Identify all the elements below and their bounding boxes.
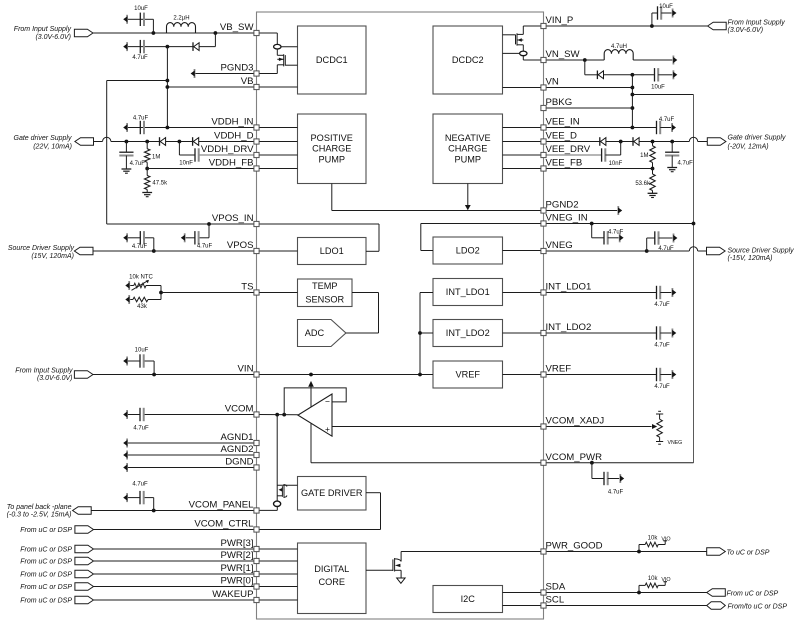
svg-text:4.7uF: 4.7uF <box>132 55 148 61</box>
svg-text:VREF: VREF <box>455 369 480 379</box>
svg-text:−: − <box>325 397 330 407</box>
svg-text:SDA: SDA <box>546 582 566 593</box>
svg-text:4.7uF: 4.7uF <box>659 117 675 123</box>
svg-text:DGND: DGND <box>225 457 253 468</box>
svg-text:(22V, 10mA): (22V, 10mA) <box>33 143 72 150</box>
svg-text:VNEG: VNEG <box>668 440 683 446</box>
svg-text:(-0.3 to -2.5V, 15mA): (-0.3 to -2.5V, 15mA) <box>7 512 72 519</box>
svg-text:VCOM_XADJ: VCOM_XADJ <box>546 416 605 427</box>
svg-text:2.2µH: 2.2µH <box>173 16 189 22</box>
svg-text:(3.0V-6.0V): (3.0V-6.0V) <box>728 27 764 34</box>
svg-text:1M: 1M <box>640 153 648 159</box>
svg-text:10uF: 10uF <box>651 85 665 91</box>
svg-text:4.7uF: 4.7uF <box>654 302 670 308</box>
svg-text:VEE_IN: VEE_IN <box>546 117 580 128</box>
svg-text:+: + <box>325 424 330 434</box>
svg-text:AGND1: AGND1 <box>220 432 253 443</box>
svg-text:VNEG_IN: VNEG_IN <box>546 213 588 224</box>
svg-text:From uC or DSP: From uC or DSP <box>20 559 72 566</box>
svg-text:VB: VB <box>241 76 254 87</box>
svg-text:10uF: 10uF <box>135 347 149 353</box>
svg-text:PGND2: PGND2 <box>546 200 579 211</box>
svg-text:VDDH_FB: VDDH_FB <box>209 158 254 169</box>
svg-text:To uC or DSP: To uC or DSP <box>727 549 770 556</box>
svg-text:PUMP: PUMP <box>318 154 345 164</box>
svg-text:VCOM: VCOM <box>225 404 254 415</box>
svg-text:4.7uF: 4.7uF <box>133 116 149 122</box>
svg-text:4.7uF: 4.7uF <box>654 384 670 390</box>
svg-text:INT_LDO2: INT_LDO2 <box>546 322 592 333</box>
svg-text:POSITIVE: POSITIVE <box>311 133 353 143</box>
svg-text:NEGATIVE: NEGATIVE <box>445 133 491 143</box>
svg-text:PWR[1]: PWR[1] <box>220 563 253 574</box>
svg-text:VPOS: VPOS <box>227 240 254 251</box>
svg-text:CORE: CORE <box>318 577 345 587</box>
svg-text:4.7uF: 4.7uF <box>197 244 213 250</box>
svg-text:VCOM_PWR: VCOM_PWR <box>546 452 603 463</box>
svg-text:VDDH_IN: VDDH_IN <box>211 117 253 128</box>
svg-text:From uC or DSP: From uC or DSP <box>20 572 72 579</box>
svg-text:SENSOR: SENSOR <box>305 294 344 304</box>
svg-text:4.7uF: 4.7uF <box>132 481 148 487</box>
svg-text:From Input Supply: From Input Supply <box>728 19 786 26</box>
svg-text:SCL: SCL <box>546 595 565 606</box>
svg-text:VB_SW: VB_SW <box>220 22 255 33</box>
svg-text:INT_LDO2: INT_LDO2 <box>446 328 490 338</box>
svg-text:LDO1: LDO1 <box>320 246 344 256</box>
svg-text:PWR[0]: PWR[0] <box>220 576 253 587</box>
svg-text:4.7uH: 4.7uH <box>611 44 627 50</box>
svg-text:INT_LDO1: INT_LDO1 <box>546 282 592 293</box>
svg-text:GATE DRIVER: GATE DRIVER <box>301 488 363 498</box>
svg-text:PUMP: PUMP <box>454 154 481 164</box>
svg-text:VN: VN <box>546 77 559 88</box>
svg-text:(15V, 120mA): (15V, 120mA) <box>31 253 74 260</box>
svg-text:VIO: VIO <box>661 536 670 542</box>
svg-text:VIO: VIO <box>661 577 670 583</box>
svg-text:To panel back -plane: To panel back -plane <box>7 504 72 511</box>
svg-text:VPOS_IN: VPOS_IN <box>212 213 254 224</box>
svg-text:VDDH_D: VDDH_D <box>214 131 254 142</box>
svg-text:VNEG: VNEG <box>546 240 573 251</box>
svg-text:VEE_DRV: VEE_DRV <box>546 144 591 155</box>
svg-text:4.7uF: 4.7uF <box>608 490 624 496</box>
svg-text:LDO2: LDO2 <box>456 245 480 255</box>
svg-text:43k: 43k <box>137 304 148 310</box>
svg-text:10uF: 10uF <box>659 4 673 10</box>
svg-text:Gate driver Supply: Gate driver Supply <box>14 135 72 142</box>
svg-text:PWR[3]: PWR[3] <box>220 538 253 549</box>
svg-text:10uF: 10uF <box>134 6 148 12</box>
svg-text:Source Driver Supply: Source Driver Supply <box>8 245 75 252</box>
svg-text:VEE_D: VEE_D <box>546 131 578 142</box>
svg-text:From uC or DSP: From uC or DSP <box>20 547 72 554</box>
svg-text:(-20V, 12mA): (-20V, 12mA) <box>728 144 769 151</box>
svg-text:I2C: I2C <box>461 594 476 604</box>
svg-text:1M: 1M <box>152 155 160 161</box>
svg-text:4.7uF: 4.7uF <box>132 244 148 250</box>
svg-text:VIN: VIN <box>238 364 254 375</box>
svg-text:Source Driver Supply: Source Driver Supply <box>728 247 795 254</box>
svg-text:TS: TS <box>241 282 253 293</box>
svg-text:PWR[2]: PWR[2] <box>220 550 253 561</box>
svg-text:INT_LDO1: INT_LDO1 <box>446 287 490 297</box>
svg-text:4.7uF: 4.7uF <box>608 229 624 235</box>
svg-text:CHARGE: CHARGE <box>312 144 351 154</box>
svg-text:10nF: 10nF <box>179 161 193 167</box>
svg-text:TEMP: TEMP <box>312 281 338 291</box>
svg-text:DIGITAL: DIGITAL <box>314 564 349 574</box>
svg-text:DCDC2: DCDC2 <box>452 55 484 65</box>
svg-text:AGND2: AGND2 <box>220 444 253 455</box>
svg-text:53.6k: 53.6k <box>635 181 651 187</box>
svg-text:DCDC1: DCDC1 <box>316 55 348 65</box>
svg-text:(3.0V-6.0V): (3.0V-6.0V) <box>35 34 71 41</box>
svg-text:10k: 10k <box>648 576 659 582</box>
svg-text:(3.0V-6.0V): (3.0V-6.0V) <box>37 375 73 382</box>
svg-text:VEE_FB: VEE_FB <box>546 158 583 169</box>
svg-text:From uC or DSP: From uC or DSP <box>20 527 72 534</box>
svg-text:VIN_P: VIN_P <box>546 15 574 26</box>
svg-text:From/to uC or DSP: From/to uC or DSP <box>728 603 788 610</box>
svg-text:4.7uF: 4.7uF <box>133 426 149 432</box>
svg-text:VDDH_DRV: VDDH_DRV <box>201 144 254 155</box>
svg-text:PGND3: PGND3 <box>220 63 253 74</box>
svg-text:VCOM_PANEL: VCOM_PANEL <box>189 500 255 511</box>
svg-text:4.7uF: 4.7uF <box>654 342 670 348</box>
svg-text:VN_SW: VN_SW <box>546 49 581 60</box>
svg-text:VCOM_CTRL: VCOM_CTRL <box>194 519 254 530</box>
svg-text:(-15V, 120mA): (-15V, 120mA) <box>728 255 773 262</box>
svg-text:ADC: ADC <box>305 328 325 338</box>
svg-text:10k NTC: 10k NTC <box>129 274 153 280</box>
svg-text:From uC or DSP: From uC or DSP <box>20 598 72 605</box>
svg-text:From Input Supply: From Input Supply <box>14 26 72 33</box>
svg-text:10nF: 10nF <box>609 161 623 167</box>
svg-text:VREF: VREF <box>546 364 572 375</box>
svg-text:Gate driver Supply: Gate driver Supply <box>728 135 786 142</box>
svg-text:CHARGE: CHARGE <box>448 144 487 154</box>
svg-text:From uC or DSP: From uC or DSP <box>727 590 779 597</box>
svg-text:4.7uF: 4.7uF <box>658 246 674 252</box>
svg-text:From Input Supply: From Input Supply <box>15 367 73 374</box>
svg-text:10k: 10k <box>648 535 659 541</box>
svg-text:4.7uF: 4.7uF <box>678 161 694 167</box>
svg-text:From uC or DSP: From uC or DSP <box>20 584 72 591</box>
svg-text:PBKG: PBKG <box>546 97 573 108</box>
svg-text:WAKEUP: WAKEUP <box>212 589 253 600</box>
svg-text:PWR_GOOD: PWR_GOOD <box>546 541 603 552</box>
svg-text:47.5k: 47.5k <box>152 180 168 186</box>
svg-text:4.7uF: 4.7uF <box>130 161 146 167</box>
